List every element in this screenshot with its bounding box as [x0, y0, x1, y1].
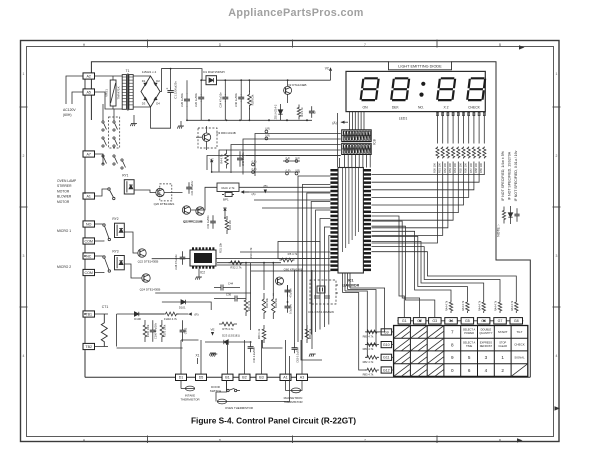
connector bottom A1: [280, 374, 291, 380]
svg-text:VC: VC: [325, 67, 330, 71]
intake thermistor symbol: [185, 386, 194, 391]
wire node A: [244, 191, 249, 193]
wire display pin left 5: [360, 112, 362, 130]
chassis ground mid bottom: [211, 354, 218, 357]
schematic boundary top-left: [91, 62, 389, 120]
wire FH02 to R arrow: [177, 313, 189, 315]
wire IC1 left staircase 7: [324, 227, 330, 327]
resistor R56: [467, 147, 470, 159]
svg-text:B3: B3: [259, 376, 263, 380]
relay RY3 coil bar: [116, 257, 118, 268]
wire IC1 left stub 1: [240, 251, 330, 253]
wire IC1 left staircase 5: [316, 210, 331, 332]
svg-text:1: 1: [501, 355, 504, 360]
connector NO: [83, 221, 95, 227]
display pin pad 4: [452, 112, 454, 115]
test point (L4) 6: [295, 156, 300, 163]
key matrix hatched unused cells: [394, 326, 528, 377]
crystal CF1 element2: [322, 288, 324, 292]
diode D1 RGP15DSPI: [209, 78, 213, 82]
wire G header bus: [397, 320, 523, 322]
bridge diode D3: [143, 97, 148, 102]
wire IC1 to G2: [372, 221, 420, 318]
wire row feed 1: [349, 273, 351, 288]
svg-text:ON: ON: [362, 105, 368, 109]
frame fold arrow bottom: [517, 438, 523, 442]
transistor Q2 RRC1014B mid: [196, 207, 204, 215]
svg-text:G7: G7: [498, 319, 503, 323]
wire long vertical b: [339, 158, 341, 167]
junction dot 23: [483, 320, 485, 322]
svg-text:G11: G11: [383, 356, 390, 360]
svg-text:Figure S-4. Control Panel Circ: Figure S-4. Control Panel Circuit (R-22G…: [191, 416, 356, 426]
switch contact 6: [113, 155, 118, 165]
wire segment display line 7 to IC1: [372, 162, 469, 198]
frame top zone tick 1: [147, 40, 149, 48]
svg-text:QUANTITY: QUANTITY: [479, 331, 492, 335]
bridge diode D4: [152, 97, 157, 102]
capacitor C40 top: [237, 151, 243, 167]
relay contact cluster dashed box: [109, 117, 120, 148]
capacitor C40: [238, 94, 244, 102]
svg-text:G12: G12: [383, 368, 390, 372]
wire A7 to contacts: [94, 154, 103, 164]
wire C40 upper lead: [240, 80, 242, 95]
svg-text:RA4 4.7k: RA4 4.7k: [511, 300, 514, 311]
display pin pad 2: [442, 112, 444, 115]
svg-text:C20 1u/50v: C20 1u/50v: [194, 92, 198, 106]
junction dot 9: [249, 119, 251, 121]
svg-text:R10 4.7k: R10 4.7k: [249, 247, 253, 258]
svg-text:115Ω/1 x 4: 115Ω/1 x 4: [142, 70, 157, 74]
wire D23 left: [205, 341, 224, 343]
svg-text:R53 100: R53 100: [448, 163, 452, 173]
wire Q22 right: [155, 292, 250, 294]
svg-text:D100: D100: [134, 317, 141, 321]
door switch symbol: [227, 380, 241, 391]
svg-text:ZD1 HZ14-2: ZD1 HZ14-2: [274, 104, 278, 119]
connector A5: [83, 89, 95, 95]
wire Q3 collector: [206, 126, 208, 133]
wire IC1 left staircase 8: [329, 236, 331, 325]
connector G8: [510, 318, 523, 324]
wire display pin right 4: [452, 112, 454, 144]
svg-text:MICRO 1: MICRO 1: [57, 229, 71, 233]
wire display pin right 9: [478, 112, 480, 144]
wire gnd stub: [133, 115, 135, 124]
wire IC8 to IC1 pin 6: [362, 155, 364, 168]
wire VC mid2 stub: [224, 211, 226, 218]
svg-text:CT1: CT1: [102, 305, 109, 309]
wire oven therm riser: [227, 356, 290, 402]
wire D1 up: [180, 340, 182, 374]
resistor R58: [478, 147, 481, 159]
frame bottom zone tick 3: [436, 436, 438, 444]
wire oven therm: [216, 380, 227, 401]
svg-text:R75 4.7k: R75 4.7k: [222, 327, 234, 331]
wire A1 up: [285, 340, 287, 374]
resistor R4: [225, 150, 229, 169]
wire segment display line 10 to IC1: [372, 162, 485, 175]
wire IC1 to row G9: [358, 288, 385, 332]
drawing frame inner border: [27, 47, 554, 437]
svg-text:C28 47u/10v: C28 47u/10v: [174, 254, 178, 270]
wire D23 right: [228, 341, 250, 343]
frame fold arrow top right: [519, 45, 525, 49]
svg-text:DEF.: DEF.: [392, 105, 399, 109]
svg-text:RHC 2.7k: RHC 2.7k: [221, 186, 235, 190]
chassis ground near bridge: [130, 124, 137, 127]
wire IC1 left stub 2: [246, 258, 330, 260]
wire RY3 lower: [94, 271, 104, 274]
test point (L4) 5: [286, 156, 291, 163]
resistor RA4 4.7k: [449, 300, 452, 313]
wire C1 top: [162, 69, 171, 89]
wire VC stub: [330, 71, 332, 80]
svg-text:AC120V: AC120V: [63, 108, 76, 112]
svg-text:R60 1.1k: R60 1.1k: [257, 328, 261, 339]
connector A2: [83, 73, 95, 79]
schematic bottom rail: [85, 376, 530, 378]
svg-text:2: 2: [23, 154, 25, 158]
varistor VRS1 diag: [111, 83, 116, 103]
wire RY3 to Q24: [124, 264, 142, 278]
wire segment display line 9 to IC1: [372, 162, 480, 183]
wire IC1 to G5: [372, 236, 468, 300]
svg-text:R81 4.7k: R81 4.7k: [363, 347, 374, 351]
connector G10: [381, 342, 392, 348]
svg-text:D4: D4: [156, 102, 160, 106]
svg-text:CLEAR: CLEAR: [498, 344, 507, 348]
connector A7: [83, 151, 95, 157]
svg-text:POWER: POWER: [464, 331, 474, 335]
wire A5 to T1: [94, 92, 122, 109]
svg-text:R21 4.7k: R21 4.7k: [247, 300, 251, 311]
wire display pin left 1: [349, 112, 351, 130]
wire row feed h 4: [343, 292, 359, 294]
wire VRS1 top: [112, 76, 114, 80]
test point (LR) 4: [252, 167, 257, 174]
svg-text:0.1u/50v: 0.1u/50v: [288, 303, 292, 314]
svg-text:D101: D101: [179, 305, 186, 309]
display digit 1: [359, 77, 379, 101]
resistor R55: [462, 147, 465, 159]
relay RY2 damper diode: [119, 229, 123, 233]
wire C20 lower lead: [200, 101, 202, 120]
svg-text:Q3 RRC1014B: Q3 RRC1014B: [216, 131, 235, 135]
wire bottom bus 2: [226, 342, 228, 345]
wire C44 right: [223, 287, 240, 289]
wire R29 bottom: [248, 108, 250, 120]
relay RY2 coil bar: [116, 225, 118, 236]
wire G12 to matrix: [392, 369, 394, 371]
note resistor symbol: [502, 207, 505, 224]
key cell EXPRESS DEFROST: [480, 340, 493, 347]
test point (LR) 1: [265, 126, 270, 133]
wire RY3 upper: [94, 255, 102, 257]
wire C24 lower lead: [224, 101, 226, 120]
wire display pin right 5: [457, 112, 459, 144]
left rail vertical wire: [84, 76, 86, 377]
svg-text:(LR): (LR): [265, 133, 270, 137]
relay RY1 coil box: [124, 180, 134, 194]
svg-text:D23 (1SS181): D23 (1SS181): [222, 334, 240, 338]
svg-text:MOTOR: MOTOR: [57, 189, 70, 193]
wire bottom bus 3: [263, 340, 283, 348]
connector bottom B1: [222, 374, 233, 380]
wire TB2 drop to bottom rail: [84, 352, 86, 377]
display pin pad 8: [473, 112, 475, 115]
svg-text:8: 8: [451, 342, 454, 347]
svg-text:D5: D5: [199, 376, 204, 380]
relay RY3 coil box: [115, 256, 125, 270]
svg-text:A1: A1: [86, 194, 90, 198]
frame right zone tick 1: [553, 106, 561, 108]
svg-text:IF NOT SPECIFIED, 1SS270A: IF NOT SPECIFIED, 1SS270A: [508, 151, 512, 200]
wire C26 top: [186, 80, 188, 94]
svg-text:MOTOR: MOTOR: [57, 200, 70, 204]
svg-text:7: 7: [364, 438, 366, 442]
connector bottom D1: [176, 374, 187, 380]
svg-text:TIME: TIME: [466, 344, 472, 348]
switch contact 7: [121, 159, 126, 169]
transistor Q24 DTE143EB: [142, 274, 150, 282]
switch contact 3: [102, 137, 107, 147]
relay RY2 contact: [103, 224, 111, 241]
LED display module outline: [346, 71, 485, 111]
wire B2 up: [244, 340, 246, 374]
svg-text:(A): (A): [332, 121, 336, 125]
wire segment display line 1 to IC1: [372, 162, 438, 244]
svg-text:BP1: BP1: [223, 197, 229, 201]
wire IC8 to IC1 pin 1: [344, 155, 346, 168]
svg-text:(LR): (LR): [265, 126, 270, 130]
IC1 internal through wires: [343, 168, 359, 252]
wire row feed h 1: [350, 287, 358, 289]
frame right zone tick 3: [553, 306, 561, 308]
svg-text:A3: A3: [300, 376, 304, 380]
connector G3: [429, 318, 442, 324]
wire IC1 to row G12: [358, 293, 366, 371]
svg-text:C26 1u/50v: C26 1u/50v: [180, 92, 184, 106]
junction dot 19: [84, 255, 86, 257]
transistor Q22 DTE143EB: [138, 249, 146, 257]
display digit 2: [390, 77, 410, 101]
wire A3 up: [301, 340, 303, 374]
varistor VRS1: [110, 80, 116, 106]
wire T1 to bridge top: [133, 75, 150, 77]
wire G10 to matrix: [392, 344, 394, 346]
wire IC1 to G7: [372, 247, 501, 301]
frame bottom zone tick 1: [147, 436, 149, 444]
svg-text:R32 2.7k: R32 2.7k: [230, 266, 242, 270]
switch contact 1: [102, 121, 107, 131]
svg-text:Q20 DTB143ES: Q20 DTB143ES: [154, 202, 175, 206]
svg-text:R101 100k: R101 100k: [163, 324, 167, 337]
wire row feed h 2: [348, 289, 359, 291]
crystal CF1 dashed box: [310, 280, 336, 304]
junction on rail 4: [306, 119, 308, 121]
svg-text:7: 7: [451, 330, 454, 335]
connector bottom B3: [256, 374, 267, 380]
connector A1: [83, 193, 95, 199]
connector G4: [445, 318, 458, 324]
svg-text:C100 47u/16v: C100 47u/16v: [154, 322, 158, 339]
resistor R60: [262, 325, 266, 343]
svg-text:R82 4.7k: R82 4.7k: [363, 360, 374, 364]
junction dot 18: [84, 192, 86, 194]
wire bottom vertical 1: [245, 263, 247, 296]
VE arrow: [211, 332, 214, 336]
svg-text:(L4): (L4): [295, 156, 300, 160]
wire D101 rail: [162, 301, 181, 303]
wire gnd stub2: [180, 121, 182, 126]
svg-text:D2: D2: [156, 79, 160, 83]
wire long vertical a: [337, 113, 339, 167]
frame top zone tick 3: [436, 40, 438, 48]
svg-text:RY1: RY1: [122, 174, 128, 178]
display pin pad 3: [447, 112, 449, 115]
svg-text:RA4 4.7k: RA4 4.7k: [446, 300, 449, 311]
connector COM: [83, 269, 95, 275]
frame left zone tick 2: [20, 206, 28, 208]
junction dot 4: [249, 79, 251, 81]
wire segment display line 5 to IC1: [372, 162, 459, 213]
svg-text:OVEN THERMISTOR: OVEN THERMISTOR: [225, 406, 253, 410]
svg-text:COM: COM: [85, 239, 93, 243]
wire mid rail y262: [217, 262, 281, 264]
svg-text:1: 1: [23, 72, 25, 76]
wire vert 250: [250, 263, 252, 330]
svg-text:R50 100: R50 100: [432, 163, 436, 173]
wire IC1 mid stub 3: [254, 199, 330, 201]
svg-text:RY2: RY2: [112, 217, 118, 221]
relay RY3 contact: [103, 256, 111, 272]
key matrix table grid: [394, 326, 528, 377]
display pin pad 10: [483, 112, 485, 115]
wire C36 right: [237, 298, 246, 300]
wire display pin left 6: [363, 112, 365, 130]
svg-text:4: 4: [556, 354, 558, 358]
svg-text:C102: C102: [183, 327, 187, 334]
resistor R3: [297, 105, 300, 120]
arrow at node A display: [341, 121, 345, 124]
VC arrow top: [329, 67, 332, 71]
display colon: [419, 82, 425, 97]
svg-text:CHECK: CHECK: [514, 343, 525, 347]
wire Q20 to RHC: [164, 192, 182, 194]
resistor R32: [229, 261, 244, 265]
wire bottom vertical 4: [287, 285, 289, 302]
display pin pad 9: [478, 112, 480, 115]
svg-text:2: 2: [501, 368, 504, 373]
svg-text:R59 130: R59 130: [479, 163, 483, 173]
svg-text:C36: C36: [226, 292, 232, 296]
transistor Q21 RRC101B: [182, 206, 190, 214]
junction dot 22: [450, 320, 452, 322]
display pin pad 5: [457, 112, 459, 115]
svg-text:Q2 RRC1014B: Q2 RRC1014B: [183, 220, 202, 224]
wire TB1 to CT1: [94, 313, 108, 315]
junction dot 20: [84, 313, 86, 315]
VC arrow mid2: [223, 207, 226, 211]
resistor RA5 4.7k: [466, 300, 469, 313]
resistor RA7 4.7k: [498, 300, 501, 313]
IC1 right pin comb: [363, 169, 371, 271]
svg-text:G10: G10: [383, 343, 390, 347]
wire C1 bottom: [151, 95, 171, 129]
relay RY1 damper diode: [129, 185, 133, 189]
wire IC8 to IC1 pin 7: [366, 155, 368, 168]
wire IC1 left staircase 2: [302, 185, 330, 340]
junction dot 8: [239, 119, 241, 121]
svg-text:B1: B1: [225, 376, 229, 380]
svg-text:R31 15k: R31 15k: [219, 242, 223, 253]
chassis ground X1: [209, 353, 216, 356]
resistor R40: [262, 293, 266, 319]
svg-text:(A): (A): [252, 192, 256, 196]
wire bus upper 5: [207, 156, 341, 171]
wire bus upper 4: [219, 150, 341, 172]
lower rail mid: [187, 119, 312, 121]
wire VRS1 bottom: [112, 106, 114, 109]
svg-text:R57 100: R57 100: [469, 163, 473, 173]
crystal CF1 element box: [317, 286, 325, 293]
wire IC1 mid stub 2: [244, 191, 330, 193]
svg-text:STOP: STOP: [499, 340, 506, 344]
wire mid h 172: [212, 171, 246, 173]
wire C20 upper lead: [200, 80, 202, 95]
svg-text:C24 47u/10v: C24 47u/10v: [218, 92, 222, 108]
svg-text:G8: G8: [514, 319, 519, 323]
resistor R57: [472, 147, 475, 159]
boxed resistor RHC: [217, 183, 239, 192]
note diode symbol: [508, 213, 512, 217]
key cell SELECT A POWER: [463, 328, 476, 335]
wire segment display line 8 to IC1: [372, 162, 474, 190]
wire IC1 to G6: [372, 242, 484, 301]
wire A1 to RY1 contact: [94, 189, 107, 196]
svg-text:C21 10u/10v: C21 10u/10v: [190, 180, 194, 195]
resistor R53: [452, 147, 455, 159]
capacitor C28: [180, 251, 186, 265]
arrow node A mid: [241, 190, 245, 193]
wire IC1 mid stub 1: [239, 186, 330, 188]
wire IC1 to G1: [372, 216, 405, 318]
svg-text:RA4 4.7k: RA4 4.7k: [462, 300, 465, 311]
wire bottom bus 4: [301, 340, 322, 360]
wire IC1 to G8: [372, 252, 517, 301]
relay RY1 contact: [108, 188, 115, 200]
svg-text:NOTE :-: NOTE :-: [497, 224, 501, 236]
wire mag therm: [286, 380, 292, 390]
svg-text:X1: X1: [196, 354, 200, 358]
frame left zone tick 3: [20, 306, 28, 308]
connector bottom A3: [297, 374, 308, 380]
svg-text:RA4 4.7k: RA4 4.7k: [495, 300, 498, 311]
wire mag therm2: [301, 380, 302, 390]
wire Q3 base: [196, 136, 202, 138]
svg-text:AppliancePartsPros.com: AppliancePartsPros.com: [228, 7, 364, 19]
wire IC8 to IC1 pin 5: [358, 155, 360, 168]
IC1 left pin comb: [330, 169, 338, 271]
svg-text:Q24 DTE143EB: Q24 DTE143EB: [140, 288, 161, 292]
svg-text:5: 5: [468, 355, 471, 360]
display pin pad 6: [463, 112, 465, 115]
capacitor C102: [180, 320, 186, 342]
svg-text:EXPRESS: EXPRESS: [480, 340, 493, 344]
arrow node R: [188, 312, 192, 315]
